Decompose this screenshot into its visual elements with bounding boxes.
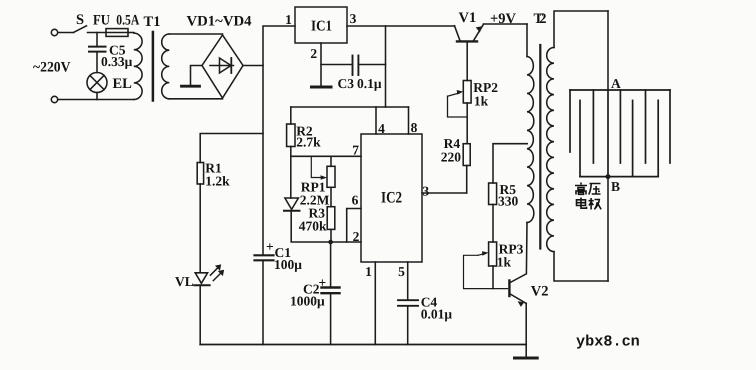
wire: T2 secondary top to electrode A (554, 11, 608, 48)
wire: V2 emitter to ground (525, 303, 527, 357)
svg-text:~220V: ~220V (33, 60, 71, 76)
wire: RP3 wiper arrow and return (478, 254, 485, 256)
wire: C5 to lamp EL (96, 53, 98, 73)
svg-text:1000μ: 1000μ (290, 294, 325, 309)
node: C5 branch junction (96, 33, 98, 46)
wire: IC2 pin5 to C4 (407, 262, 409, 299)
transistor V2 emitter with arrow (510, 294, 526, 303)
resistor R2 top lead (290, 107, 292, 124)
wire: R3 bottom to pin2 wire (330, 229, 332, 242)
wire: +9V rail (484, 23, 528, 25)
wire: R4 bottom to pin3 wire (466, 166, 468, 194)
electrode tooth (top) (592, 90, 594, 163)
wire: LED to bottom rail corner (199, 286, 201, 345)
transistor V1 collector from IC1 pin3 (455, 26, 460, 40)
svg-text:FU: FU (93, 13, 110, 29)
svg-text:8: 8 (411, 120, 418, 135)
svg-text:S: S (76, 12, 84, 28)
svg-text:2: 2 (310, 46, 317, 61)
wire: pin2 lead to C3 (321, 64, 352, 66)
wire: lamp to bottom line (96, 93, 98, 100)
wire: C2 top lead (330, 242, 332, 286)
electrode tooth (top, left edge) (569, 90, 571, 152)
electrode tooth (top) (645, 90, 647, 163)
wire: pin4 riser (375, 107, 377, 134)
wire: electrode B feed (607, 177, 609, 281)
electrode tooth (top) (619, 90, 621, 163)
svg-text:3: 3 (350, 11, 357, 26)
ground: IC1 pin2 ground bar (312, 86, 332, 89)
capacitor C3 (352, 56, 354, 76)
capacitor C2 (322, 286, 340, 288)
wire: bottom ground rail (200, 344, 526, 346)
wire: IC2 pin6 wire (347, 209, 361, 243)
transistor V1 emitter with arrow (474, 24, 484, 40)
wire: C2 to bottom rail (330, 295, 332, 345)
transformer T2 primary feed from +9V (526, 24, 528, 57)
resistor R5 (489, 183, 497, 205)
resistor R2 (287, 124, 295, 147)
wire: IC2 pin1 to bottom rail (374, 262, 376, 345)
svg-text:IC2: IC2 (381, 190, 402, 207)
transistor V2 base bar (508, 281, 510, 297)
wire: RP3 bottom lead (492, 266, 494, 289)
node: AC input top terminal (51, 29, 57, 35)
transformer T1 core (152, 32, 155, 101)
IC2 box (361, 134, 422, 262)
resistor R3 (327, 207, 335, 230)
svg-text:+: + (319, 275, 327, 290)
svg-text:6: 6 (352, 193, 359, 208)
transformer T2 primary winding (527, 57, 534, 223)
node: junction R3/C2 on pin2 wire (328, 240, 333, 245)
svg-text:100μ: 100μ (274, 257, 302, 272)
LED VL (195, 273, 207, 284)
switch S blade (74, 26, 87, 33)
transformer T1 primary winding (134, 33, 142, 99)
resistor R1 (197, 163, 203, 185)
svg-text:5: 5 (398, 264, 405, 279)
wire: R5 top lead and T2 tap (493, 144, 527, 183)
svg-text:0.5A: 0.5A (116, 13, 139, 29)
wire: bridge output to main left rail (243, 65, 263, 67)
diode symbol inside bridge (210, 65, 234, 67)
wire: C3 to +V rail (359, 64, 385, 66)
resistor R4 (463, 144, 470, 166)
svg-text:V2: V2 (531, 284, 549, 300)
potentiometer RP1 top lead (330, 156, 332, 166)
wire: V1 base lead down to RP2 (466, 43, 468, 81)
transformer T2 secondary winding (547, 48, 554, 252)
wire: RP2 wiper arrow and return (448, 93, 460, 96)
wire: bridge left vertex to bar (191, 66, 203, 86)
transformer T2 core (539, 45, 541, 249)
diode VD (timing) (285, 198, 299, 209)
svg-text:T1: T1 (144, 14, 161, 30)
wire: pin8 riser (408, 107, 410, 134)
high-voltage electrode top bus (570, 89, 670, 91)
high-voltage electrode bottom bus (580, 176, 658, 178)
wire: top terminal to switch (58, 32, 74, 34)
transformer T1 secondary winding (162, 34, 170, 99)
svg-text:220: 220 (441, 150, 462, 165)
node: electrode B junction dot (606, 174, 611, 179)
wire: IC2 pin3 output (422, 192, 467, 194)
svg-text:0.1μ: 0.1μ (357, 76, 382, 91)
svg-text:T2: T2 (534, 11, 547, 27)
svg-text:+9V: +9V (490, 11, 517, 27)
wire: IC1 pin2 down (320, 43, 322, 86)
wire: +V rail down from pin3 wire (385, 26, 387, 107)
wire: IC2 pin7 wire (291, 155, 361, 157)
ground symbol (515, 357, 538, 360)
svg-text:1: 1 (365, 264, 372, 279)
IC1 box (295, 7, 347, 43)
svg-text:3: 3 (422, 184, 429, 199)
wire: R1 to LED VL (199, 184, 201, 272)
svg-text:0.33μ: 0.33μ (101, 54, 133, 69)
svg-text:V1: V1 (459, 10, 477, 26)
electrode tooth (bottom) (657, 100, 659, 176)
potentiometer RP2 (463, 81, 471, 104)
wire: fuse to T1 primary (128, 32, 134, 34)
wire: C4 to bottom rail (407, 307, 409, 345)
svg-text:VD1~VD4: VD1~VD4 (187, 14, 252, 30)
svg-text:0.01μ: 0.01μ (421, 307, 453, 322)
label 高压 电极 (drawn strokes) (575, 183, 601, 210)
svg-text:1.2k: 1.2k (205, 174, 230, 189)
wire: RP1 wiper tap (311, 156, 324, 177)
potentiometer RP3 (489, 242, 497, 266)
electrode center line A-B (607, 90, 609, 177)
wire: Vcc wire to IC2 pins 4 and 8 (291, 106, 409, 108)
lamp EL (87, 73, 107, 93)
svg-text:1: 1 (285, 12, 292, 27)
bridge rectifier VD1~VD4 diamond (202, 35, 243, 98)
wire: R1 branch tap (200, 134, 263, 163)
transistor V2 collector (510, 222, 527, 282)
svg-text:2.7k: 2.7k (296, 135, 321, 150)
wire: T2 secondary bottom to electrode B (554, 252, 608, 281)
wire: C1 bottom lead to ground rail (262, 261, 264, 344)
wire: switch to fuse (88, 32, 107, 34)
wire: T1 secondary bottom to bridge (169, 98, 222, 100)
svg-text:IC1: IC1 (311, 19, 332, 35)
wire: R2 bottom to pin7 wire (290, 147, 292, 157)
wire: bottom terminal to T1 primary (58, 99, 134, 101)
svg-text:EL: EL (113, 76, 133, 92)
svg-text:2: 2 (353, 229, 360, 244)
fuse FU 0.5A (106, 29, 128, 37)
node: AC input bottom terminal (51, 96, 57, 102)
wire: R5 to RP3 (492, 205, 494, 243)
wire: diode to pin2 wire corner (291, 212, 361, 242)
svg-text:+: + (266, 239, 274, 254)
transistor V1 base bar (457, 40, 477, 42)
svg-text:B: B (611, 179, 620, 194)
wire: IC1 pin3 to V1 base (347, 25, 455, 27)
svg-text:C3: C3 (338, 76, 355, 91)
wire: main left rail (bridge output up to IC1 pin1, down to C1) (263, 26, 295, 254)
electrode tooth (top, right edge) (669, 90, 671, 163)
electrode tooth (bottom) (579, 100, 581, 176)
svg-text:4: 4 (378, 121, 385, 136)
svg-text:A: A (611, 76, 621, 91)
svg-text:330: 330 (498, 194, 519, 209)
bar terminal at bridge left (182, 85, 200, 88)
wire: electrode A feed (607, 11, 609, 90)
svg-text:470k: 470k (299, 219, 327, 234)
capacitor C4 (398, 299, 418, 301)
potentiometer RP1 (327, 166, 335, 187)
capacitor C5 (89, 46, 106, 48)
svg-text:ybx8.cn: ybx8.cn (576, 333, 640, 351)
svg-text:VL: VL (175, 274, 194, 289)
wire: diode branch from pin7 wire (290, 156, 292, 198)
wire: RP2 to R4 (466, 103, 468, 144)
svg-text:7: 7 (352, 143, 359, 158)
wire: T1 secondary top to bridge (169, 34, 222, 35)
electrode tooth (bottom) (632, 100, 634, 176)
capacitor C1 (255, 254, 274, 256)
svg-text:1k: 1k (497, 255, 512, 270)
wire: RP1 to R3 (330, 187, 332, 206)
svg-text:1k: 1k (474, 94, 489, 109)
